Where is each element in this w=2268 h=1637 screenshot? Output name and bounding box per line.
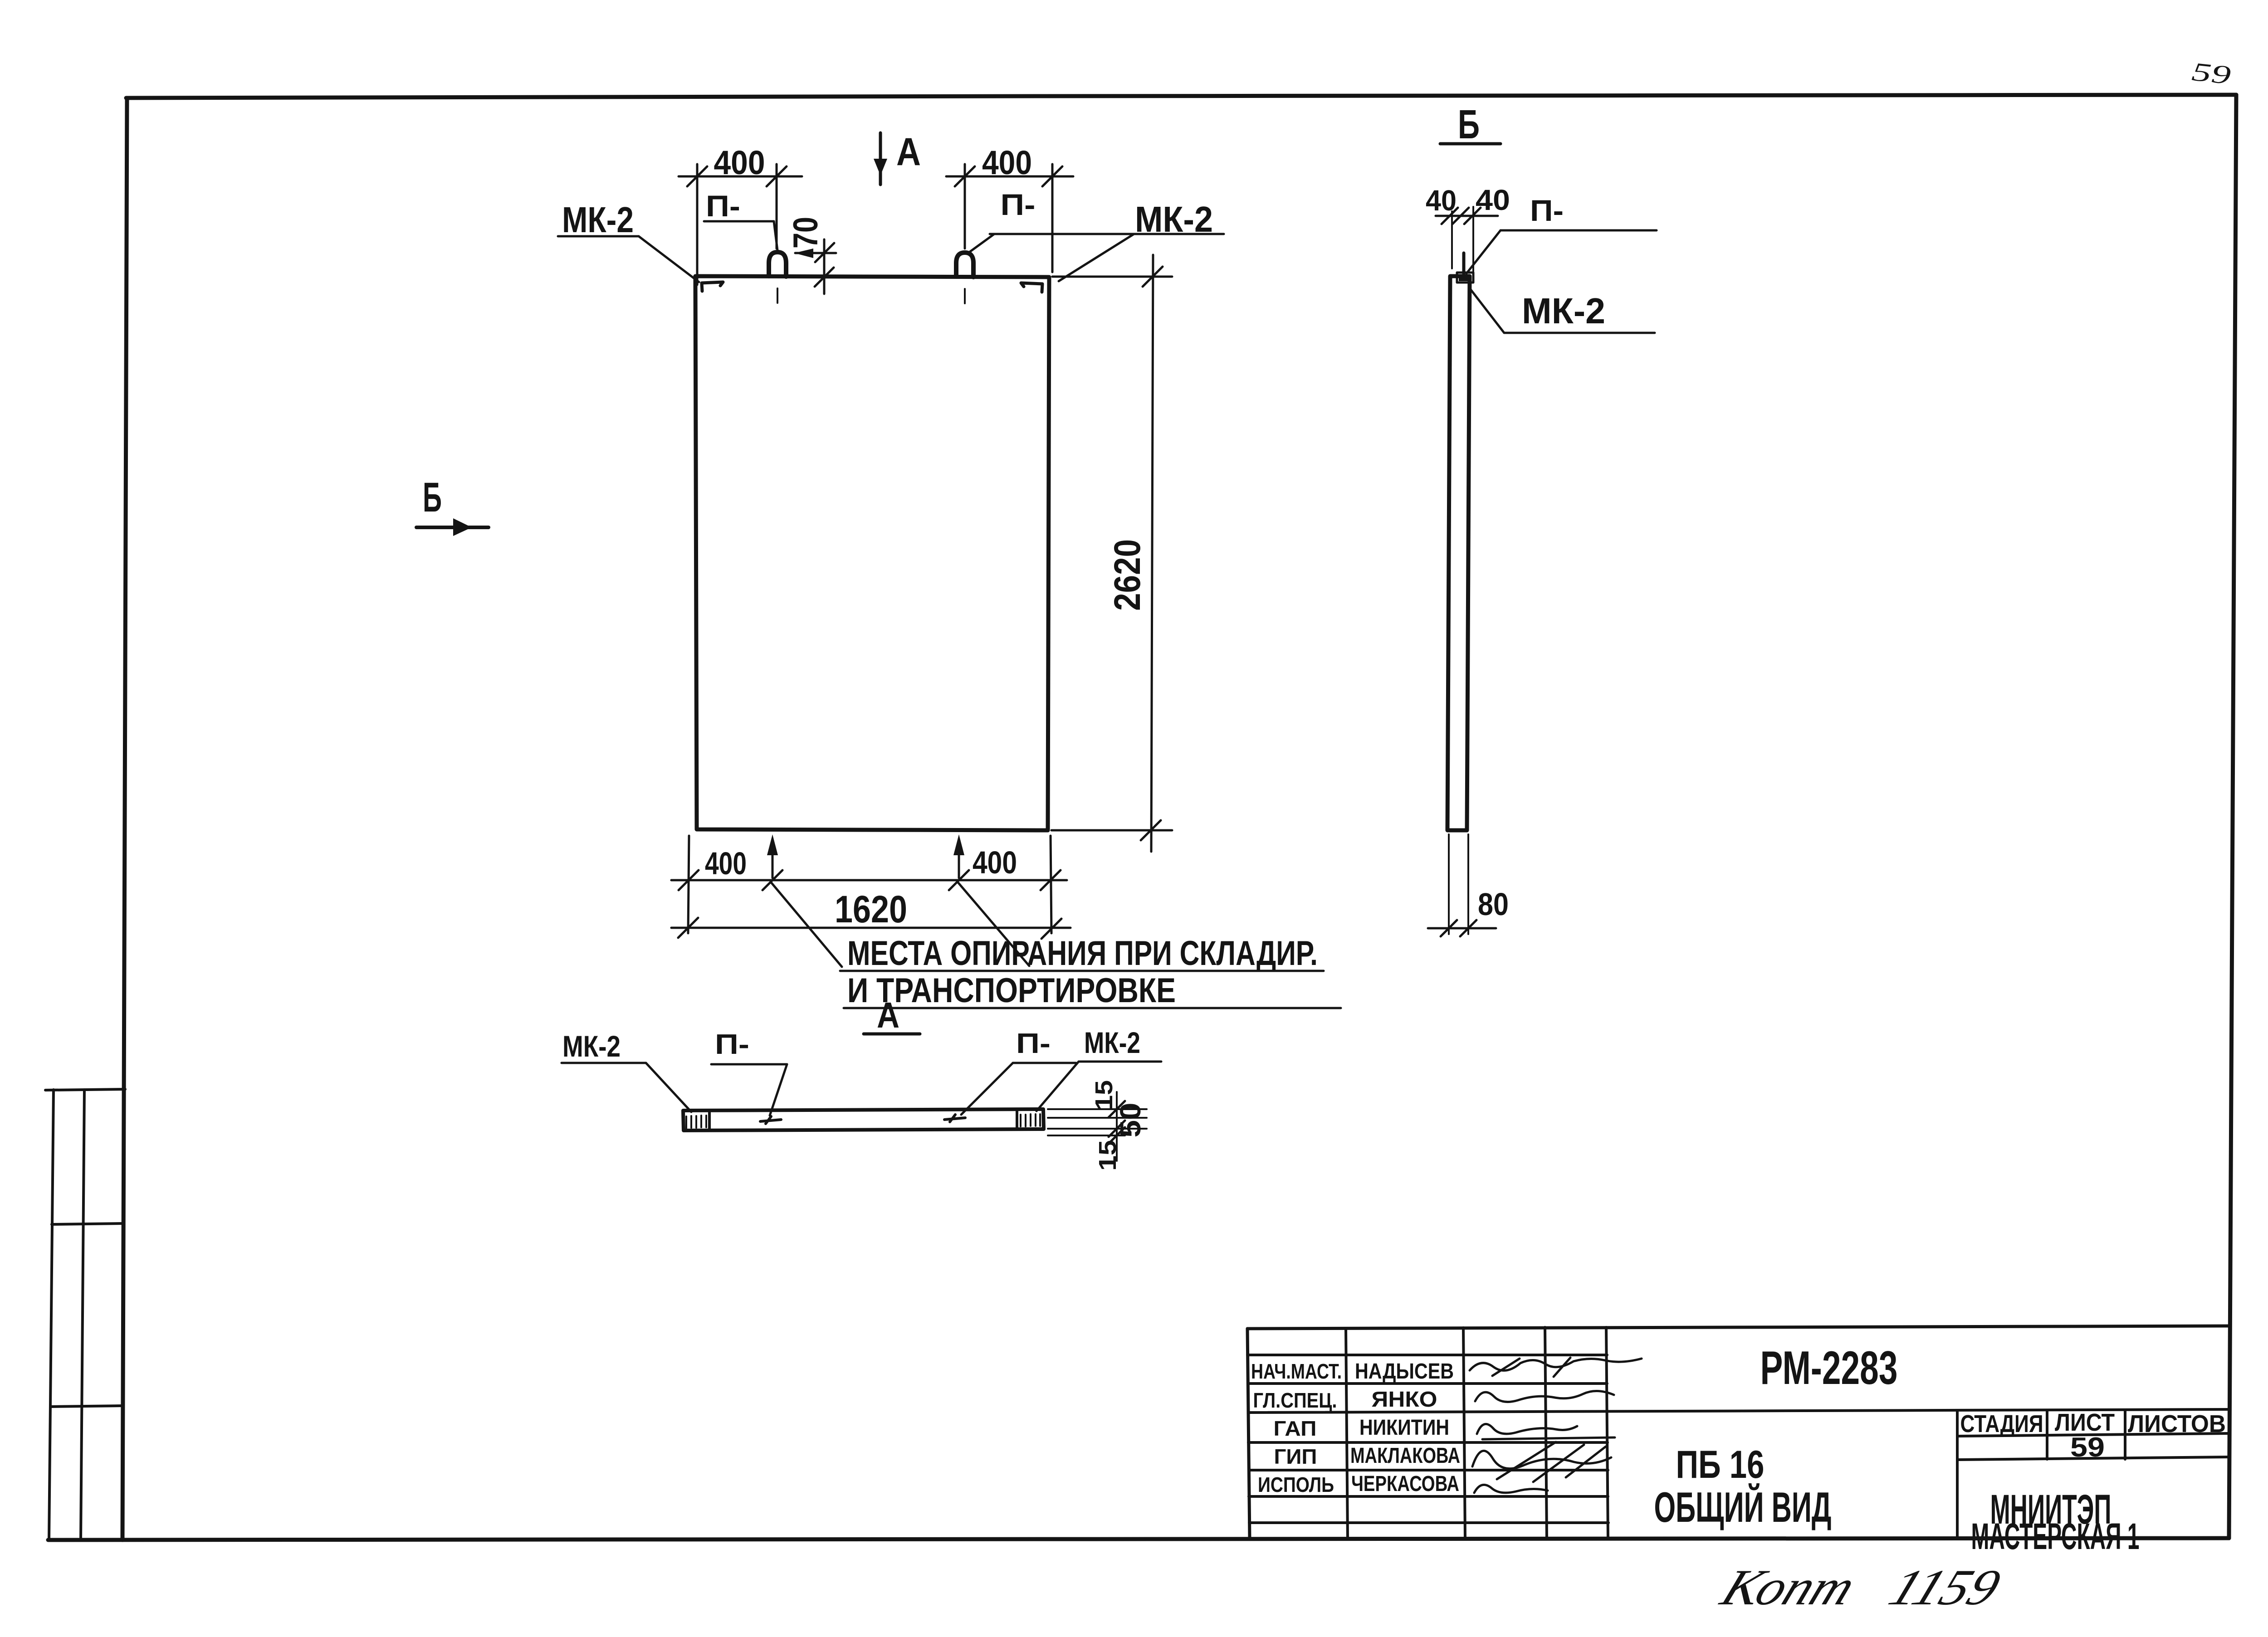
signature scribble 5 [1474, 1485, 1548, 1493]
left plate hatch [686, 1116, 706, 1128]
dimension line 400 left [679, 175, 802, 178]
leader from right support [958, 882, 1029, 966]
section bar outline [683, 1109, 1044, 1130]
section arrowhead [874, 159, 887, 175]
svg-text:Б: Б [423, 474, 442, 521]
section line [879, 133, 882, 185]
extension line right loop [964, 164, 966, 248]
FRONT-VIEW [695, 252, 1049, 830]
support arrow left head [767, 834, 778, 855]
NOTE-TEXT [840, 934, 1341, 1035]
right table column a [2046, 1410, 2048, 1459]
svg-text:400: 400 [714, 144, 765, 181]
label P- side leader [1466, 230, 1501, 273]
left table column divider [81, 1090, 84, 1540]
right table row line [1957, 1457, 2229, 1460]
extension line bottom [1051, 829, 1172, 832]
svg-text:15: 15 [1090, 1080, 1118, 1110]
svg-text:80: 80 [1478, 887, 1509, 922]
svg-text:РМ-2283: РМ-2283 [1760, 1342, 1898, 1394]
panel outline [695, 276, 1049, 830]
dimension line 400 right [946, 175, 1073, 178]
right extension line 3 [1048, 1128, 1147, 1130]
frame top line [126, 95, 2236, 98]
label MK-2 side leader [1469, 287, 1504, 333]
sig row line 5 [1249, 1495, 1608, 1498]
svg-text:59: 59 [2190, 57, 2232, 90]
svg-text:П-: П- [1001, 188, 1036, 221]
section title B underline [1440, 142, 1501, 146]
svg-text:ЧЕРКАСОВА: ЧЕРКАСОВА [1351, 1472, 1459, 1496]
tick [815, 268, 834, 287]
tick [1464, 208, 1481, 224]
tick [687, 166, 707, 186]
title block left edge [1247, 1329, 1250, 1539]
right table column b [2124, 1410, 2126, 1459]
tick [1042, 166, 1062, 186]
label P- side underline [1501, 229, 1657, 232]
extension line loop axis [1472, 207, 1474, 274]
extension line left face [1451, 211, 1453, 268]
label MK-2 section-left leader [646, 1063, 691, 1112]
SIDE-VIEW-B [1426, 102, 1657, 936]
MK-2 plate top [1457, 273, 1473, 283]
svg-text:П-: П- [1016, 1028, 1051, 1059]
svg-text:ЯНКО: ЯНКО [1372, 1388, 1437, 1412]
extension line left loop [776, 164, 778, 248]
svg-text:ПБ 16: ПБ 16 [1676, 1443, 1765, 1486]
label P- section-left underline [711, 1063, 787, 1066]
svg-text:1620: 1620 [835, 888, 907, 931]
BOTTOM-DIMENSIONS [671, 834, 1070, 967]
right extension line 4 [1048, 1135, 1125, 1136]
note line 2 underline [844, 1007, 1341, 1009]
extension line top [1052, 276, 1172, 278]
label MK-2 top-left leader [639, 236, 699, 282]
left table row divider 1 [52, 1223, 124, 1224]
view direction arrowhead [453, 518, 472, 536]
extension line bottom-right [1051, 836, 1051, 933]
tick [1442, 208, 1458, 224]
extension line right corner [1051, 164, 1054, 272]
label MK-2 top-right leader [1059, 234, 1134, 281]
left table row divider 2 [50, 1406, 123, 1407]
full width divider [1248, 1409, 2229, 1413]
tick [1109, 1101, 1125, 1117]
sig column line 3 [1545, 1327, 1547, 1539]
signature scribble 4 flourish [1497, 1442, 1606, 1482]
dim 70 arrow line [795, 252, 836, 254]
tick [1452, 208, 1469, 224]
tick [678, 918, 698, 938]
support arrow right head [953, 834, 964, 855]
svg-text:400: 400 [705, 846, 747, 881]
vertical dim line 15-50-15 [1116, 1092, 1118, 1161]
tick [1109, 1121, 1125, 1137]
extension line bottom left face [1448, 834, 1450, 934]
sig column line 1 [1346, 1328, 1348, 1539]
svg-text:МК-2: МК-2 [1135, 199, 1213, 239]
P loop mark left [760, 1116, 781, 1124]
lifting loop left axis dash [777, 288, 778, 303]
label P- top-right leader [969, 234, 994, 252]
tick [767, 166, 787, 186]
tick [1460, 920, 1476, 936]
sig row line 3 [1248, 1441, 1608, 1444]
sig column line 2 [1463, 1328, 1465, 1539]
left table outer left [49, 1090, 54, 1540]
tick [1041, 870, 1061, 890]
sig row line 1 [1247, 1354, 1607, 1356]
svg-text:ИСПОЛЬ: ИСПОЛЬ [1258, 1473, 1334, 1496]
svg-text:Б: Б [1458, 102, 1480, 147]
label MK-2 section-right underline [1079, 1061, 1161, 1063]
support arrow left shaft [772, 839, 774, 878]
tick [1141, 820, 1161, 840]
lifting loop left [769, 252, 786, 277]
dimension line 2620 [1151, 255, 1153, 852]
frame left line [122, 98, 127, 1540]
svg-text:НАДЫСЕВ: НАДЫСЕВ [1355, 1359, 1454, 1384]
section label A underline [864, 1033, 920, 1036]
P loop mark right [944, 1115, 965, 1122]
signature scribble 1 [1470, 1359, 1642, 1370]
svg-text:МК-2: МК-2 [562, 1029, 621, 1063]
title block top edge [1247, 1326, 2229, 1329]
svg-text:СТАДИЯ: СТАДИЯ [1960, 1410, 2043, 1437]
svg-text:П-: П- [706, 189, 740, 223]
dimension line 1620 [671, 927, 1070, 929]
svg-text:ЛИСТОВ: ЛИСТОВ [2128, 1410, 2226, 1437]
RIGHT-DIMENSION-2620 [1051, 255, 1172, 852]
tick [1441, 920, 1457, 936]
right extension line 1 [1048, 1108, 1147, 1110]
label P- section-right leader [961, 1063, 1013, 1115]
svg-text:МЕСТА ОПИРАНИЯ ПРИ СКЛАДИР.: МЕСТА ОПИРАНИЯ ПРИ СКЛАДИР. [847, 934, 1318, 973]
signature scribble 3 [1477, 1424, 1577, 1434]
lifting loop right axis dash [964, 289, 966, 303]
lifting loop right [956, 253, 973, 277]
right plate hatch [1021, 1114, 1040, 1126]
extension line bottom-left [688, 836, 689, 933]
SECTION-MARKER-B-LEFT [416, 474, 489, 536]
dimension line 400-400 [671, 879, 1067, 882]
HANDWRITING [1713, 57, 2232, 1616]
signature scribble 4 [1472, 1451, 1611, 1468]
sig row line 2 [1248, 1382, 1607, 1385]
svg-text:40: 40 [1426, 184, 1457, 217]
tick [679, 870, 699, 890]
MK-2 plate core [1459, 275, 1468, 281]
svg-text:МК-2: МК-2 [562, 200, 634, 240]
TITLE-BLOCK [1247, 1326, 2229, 1557]
right table left edge [1956, 1410, 1959, 1539]
TOP-DIMENSIONS [558, 144, 1224, 294]
svg-text:ОБЩИЙ ВИД: ОБЩИЙ ВИД [1654, 1483, 1832, 1531]
signature scribble 2 [1475, 1391, 1614, 1402]
sig row line 4 [1249, 1469, 1608, 1471]
label P- top-left underline [704, 220, 774, 223]
SECTION-A-VIEW [562, 1026, 1161, 1171]
tick [1109, 1127, 1125, 1144]
view direction line [416, 526, 489, 529]
svg-text:А: А [877, 995, 899, 1035]
svg-text:ГАП: ГАП [1274, 1417, 1317, 1440]
label MK-2 top-left underline [558, 235, 639, 238]
frame right line [2229, 95, 2236, 1538]
leader from left support [771, 882, 842, 967]
svg-text:400: 400 [973, 845, 1017, 880]
dim 70 arrowhead [794, 248, 813, 258]
LEFT-TABLE [45, 1089, 125, 1540]
support arrow right shaft [958, 839, 960, 878]
tick [815, 243, 834, 262]
svg-text:400: 400 [982, 144, 1032, 181]
note line 1 underline [840, 970, 1324, 972]
svg-text:ГЛ.СПЕЦ.: ГЛ.СПЕЦ. [1253, 1389, 1337, 1412]
extension line left corner [696, 164, 699, 285]
extension line bottom right face [1467, 834, 1469, 934]
label P- section-right underline [1013, 1062, 1076, 1064]
sig row line 6 [1249, 1521, 1608, 1524]
signature scribble 3 dash [1482, 1437, 1615, 1439]
tick [955, 166, 975, 186]
sig column line 4 [1606, 1327, 1608, 1539]
svg-text:ГИП: ГИП [1274, 1445, 1317, 1468]
svg-text:МАКЛАКОВА: МАКЛАКОВА [1350, 1444, 1460, 1468]
svg-text:59: 59 [2070, 1432, 2105, 1462]
tick [763, 870, 782, 890]
tick [1143, 267, 1163, 287]
right table header underline [1957, 1433, 2229, 1436]
svg-text:2620: 2620 [1107, 539, 1148, 611]
svg-text:МАСТЕРСКАЯ 1: МАСТЕРСКАЯ 1 [1971, 1516, 2140, 1557]
dimension line 80 [1428, 927, 1496, 930]
left table top [45, 1089, 125, 1090]
left MK-2 plate inner edge [708, 1111, 711, 1130]
svg-text:МК-2: МК-2 [1522, 291, 1605, 331]
side view outline [1447, 276, 1470, 830]
label P- section-left leader [770, 1064, 787, 1116]
tick [949, 870, 969, 890]
dimension line 40-40 [1436, 215, 1498, 217]
right extension line 2 [1048, 1117, 1147, 1119]
svg-text:НИКИТИН: НИКИТИН [1359, 1416, 1449, 1440]
svg-text:А: А [896, 130, 921, 174]
dim 70 vertical line [823, 239, 826, 294]
signature scribble 1 cross [1492, 1358, 1570, 1377]
label P- top-left leader [774, 221, 777, 250]
svg-text:МК-2: МК-2 [1084, 1026, 1140, 1059]
svg-text:НАЧ.МАСТ.: НАЧ.МАСТ. [1251, 1359, 1342, 1383]
svg-text:70: 70 [787, 217, 825, 248]
right MK-2 plate inner edge [1016, 1110, 1018, 1130]
frame bottom line [48, 1538, 2229, 1540]
SECTION-MARKER-A-TOP [874, 130, 921, 185]
svg-text:Копт 1159: Копт 1159 [1713, 1559, 2009, 1616]
label MK-2 side underline [1504, 332, 1655, 334]
svg-text:П-: П- [1530, 194, 1564, 227]
svg-text:40: 40 [1476, 184, 1510, 216]
MK-2 anchor mark top-left [702, 282, 723, 291]
P loop edge dash [1462, 253, 1466, 274]
svg-text:50: 50 [1114, 1103, 1147, 1138]
tick [1041, 919, 1061, 939]
label MK-2 section-right leader [1036, 1062, 1079, 1111]
label MK-2 section-left underline [562, 1062, 646, 1064]
MK-2 anchor mark top-right [1021, 283, 1042, 292]
svg-text:П-: П- [715, 1029, 749, 1060]
svg-text:15: 15 [1094, 1140, 1121, 1171]
shared underline right labels [990, 233, 1224, 235]
